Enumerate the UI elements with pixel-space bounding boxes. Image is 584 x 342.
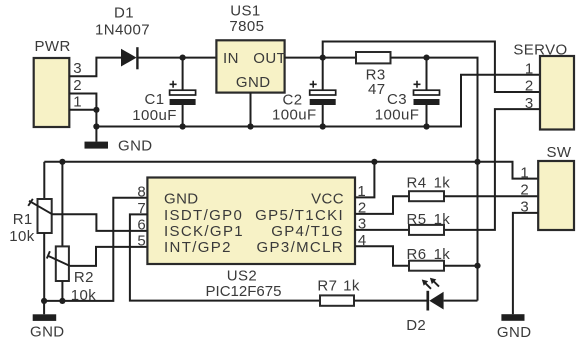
wire servo power branch xyxy=(323,42,540,93)
svg-text:1: 1 xyxy=(520,164,528,181)
svg-text:US2: US2 xyxy=(227,268,257,285)
node C3 top xyxy=(423,55,429,61)
wire US2 pin 2 to R4 xyxy=(355,196,409,214)
node R2 top xyxy=(59,159,65,165)
ground (PWR) xyxy=(85,142,109,149)
svg-text:1k: 1k xyxy=(343,278,360,295)
svg-text:GP5/T1CKI: GP5/T1CKI xyxy=(255,207,344,224)
svg-text:1: 1 xyxy=(73,94,81,111)
svg-text:2: 2 xyxy=(525,78,533,95)
svg-text:8: 8 xyxy=(137,183,145,200)
wire US2 pin 8 to ground run xyxy=(44,198,147,301)
wire US2 pin 3 to R5 xyxy=(355,229,409,231)
connector PWR xyxy=(34,58,70,127)
node VCC drop xyxy=(474,159,480,165)
wire SW pin 3 to ground xyxy=(513,213,538,314)
svg-text:GND: GND xyxy=(30,323,65,340)
wire R3 to VCC drop xyxy=(391,58,478,301)
svg-text:6: 6 xyxy=(137,217,145,234)
wire US1 OUT to R3 xyxy=(285,57,356,59)
svg-text:D2: D2 xyxy=(406,317,426,334)
wire D1 to C1 node xyxy=(138,57,216,59)
svg-text:ISDT/GP0: ISDT/GP0 xyxy=(164,207,243,224)
svg-text:GND: GND xyxy=(236,74,271,91)
svg-text:3: 3 xyxy=(73,60,81,77)
node pin1/pin2 junction xyxy=(93,107,99,113)
svg-text:R4: R4 xyxy=(407,174,427,191)
svg-text:1k: 1k xyxy=(434,174,451,191)
D2 light arrows xyxy=(425,283,431,289)
wire R2 wiper to US2 pin 5 xyxy=(70,247,148,266)
svg-text:US1: US1 xyxy=(230,2,260,19)
wire US2 pin 1 to VCC rail xyxy=(355,162,374,198)
wire R7 to D2 xyxy=(354,300,428,302)
wire SERVO pin 3 to R5 xyxy=(444,109,540,230)
wire US2 pin 7 to R7 xyxy=(130,214,320,300)
svg-text:C1: C1 xyxy=(145,91,165,108)
svg-text:PIC12F675: PIC12F675 xyxy=(206,283,282,300)
svg-text:GP4/T1G: GP4/T1G xyxy=(271,223,344,240)
svg-text:GND: GND xyxy=(164,191,199,208)
svg-text:R1: R1 xyxy=(13,211,33,228)
node R1 bottom xyxy=(41,298,47,304)
svg-text:OUT: OUT xyxy=(253,50,286,67)
svg-text:2: 2 xyxy=(73,77,81,94)
wire R6 to VCC drop xyxy=(444,265,478,267)
svg-text:1: 1 xyxy=(525,60,533,77)
svg-text:VCC: VCC xyxy=(311,191,344,208)
node C1 top xyxy=(180,55,186,61)
node R2 bottom xyxy=(59,298,65,304)
node gnd junction xyxy=(93,123,99,129)
svg-text:10k: 10k xyxy=(9,228,34,245)
svg-text:GND: GND xyxy=(118,137,153,154)
ground (SW) xyxy=(501,314,524,321)
svg-text:47: 47 xyxy=(368,81,386,98)
svg-text:R2: R2 xyxy=(74,269,94,286)
svg-text:INT/GP2: INT/GP2 xyxy=(164,239,232,256)
svg-text:100uF: 100uF xyxy=(272,106,317,123)
node US2 VCC branch xyxy=(371,159,377,165)
svg-text:ISCK/GP1: ISCK/GP1 xyxy=(164,223,244,240)
svg-text:GND: GND xyxy=(497,324,532,341)
wire US2 pin 4 to R6 xyxy=(355,246,409,266)
node US1 GND xyxy=(247,123,253,129)
svg-text:SW: SW xyxy=(547,144,572,161)
svg-text:D1: D1 xyxy=(114,5,134,22)
wire US1 GND down xyxy=(250,93,252,127)
svg-text:7805: 7805 xyxy=(229,18,264,35)
node R6/D2 xyxy=(474,263,480,269)
svg-text:IN: IN xyxy=(223,50,239,67)
R1 wiper arrow xyxy=(29,201,52,214)
wire R4 to SW pin 2 xyxy=(444,195,538,197)
svg-text:PWR: PWR xyxy=(34,38,70,55)
svg-text:5: 5 xyxy=(137,233,145,250)
wire VCC rail xyxy=(44,162,538,179)
svg-text:2: 2 xyxy=(520,182,528,199)
svg-text:R7: R7 xyxy=(317,278,337,295)
wire R1 wiper to US2 pin 6 xyxy=(52,214,148,231)
svg-text:100uF: 100uF xyxy=(375,106,420,123)
svg-text:GP3/MCLR: GP3/MCLR xyxy=(257,239,345,256)
svg-text:100uF: 100uF xyxy=(132,107,177,124)
svg-text:1N4007: 1N4007 xyxy=(95,22,150,39)
wire ground rail (bottom of caps) to SERVO pin 1 xyxy=(96,75,540,127)
IC US2 xyxy=(147,178,355,265)
ground (bottom left) xyxy=(43,301,45,314)
R2 wiper arrow xyxy=(48,256,70,266)
node C2 top xyxy=(320,55,326,61)
